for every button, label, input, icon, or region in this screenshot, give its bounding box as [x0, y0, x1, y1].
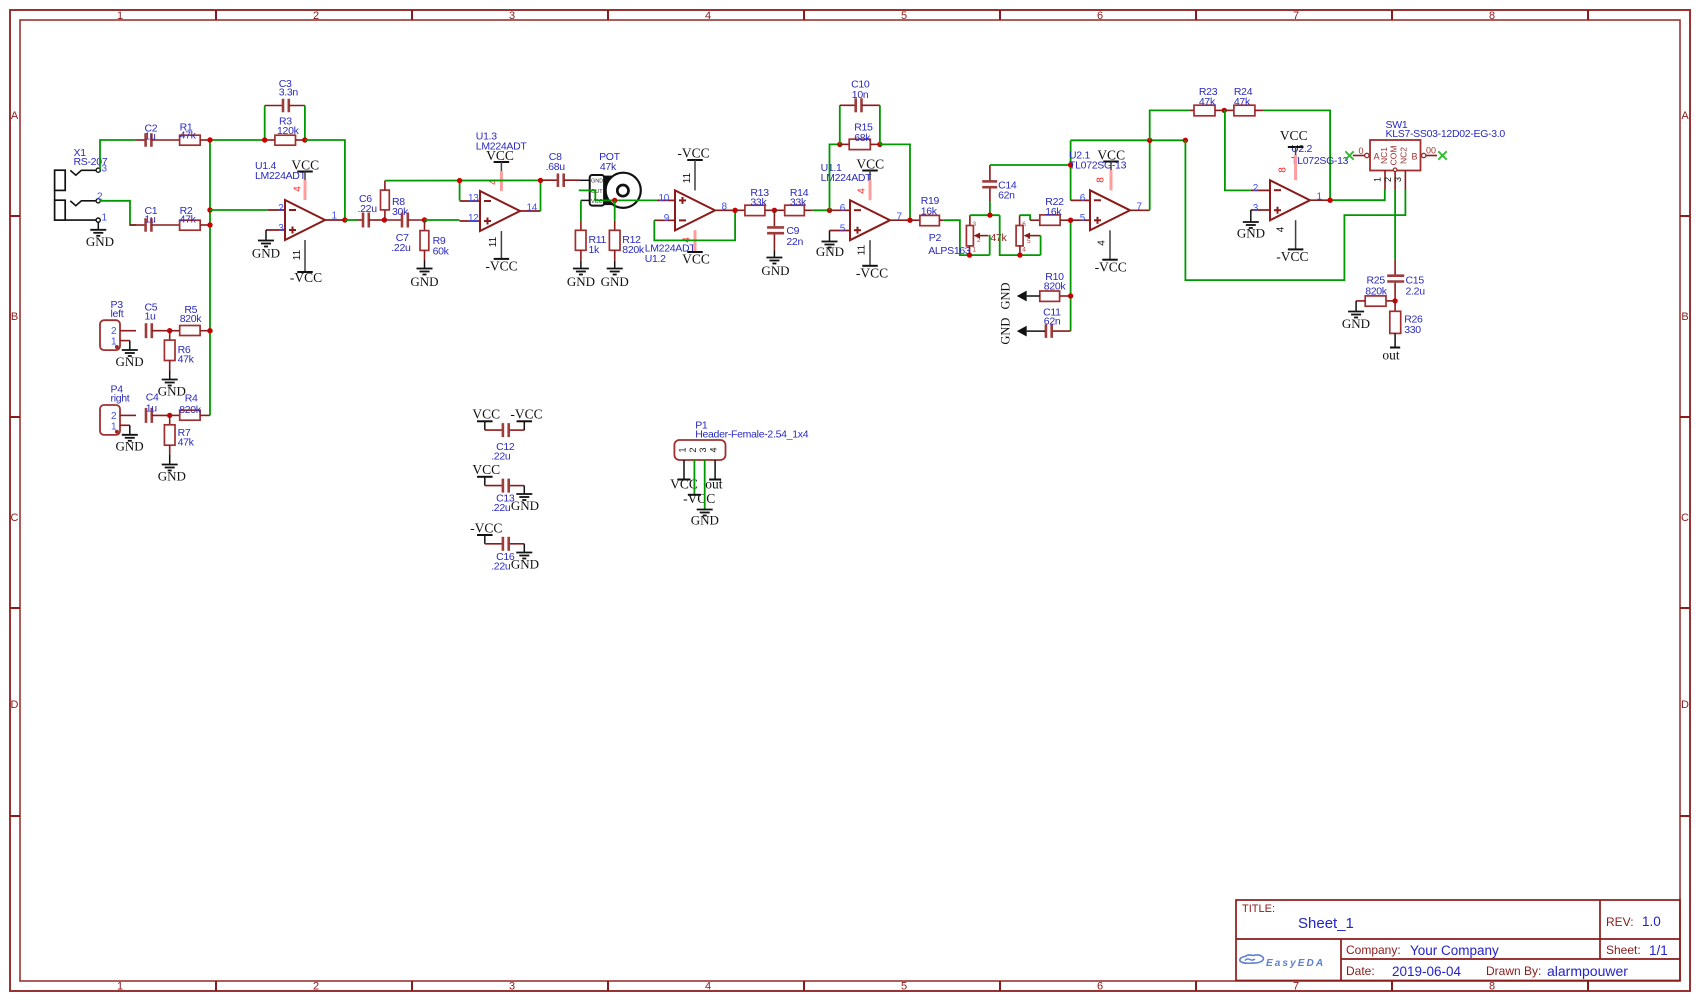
wire U2.1 output up to feedback row [1149, 140, 1151, 210]
svg-text:-VCC: -VCC [677, 146, 709, 161]
connector P1 Header-Female-2.54_1x4 [674, 420, 808, 461]
resistor R15 68k feedback [837, 122, 883, 150]
potentiometer P2 ALPS163 gang 1 [928, 215, 1007, 258]
svg-text:U1.2: U1.2 [645, 253, 666, 265]
wire X1 pin3 to C2 [100, 140, 136, 170]
svg-text:4: 4 [1022, 246, 1026, 253]
svg-text:47k: 47k [180, 213, 197, 225]
svg-text:C: C [1681, 512, 1689, 524]
svg-text:1: 1 [973, 246, 977, 253]
svg-text:1.0: 1.0 [1642, 914, 1661, 929]
svg-text:D: D [11, 699, 19, 711]
op-amp U1.2 LM224ADT [645, 190, 735, 265]
svg-text:11: 11 [857, 244, 868, 255]
no-connect X left of SW1 [1345, 151, 1353, 159]
svg-text:-VCC: -VCC [290, 270, 322, 285]
connector X1 RS-207 jack [55, 147, 108, 224]
svg-text:U2.2: U2.2 [1291, 143, 1312, 155]
resistor R1 47k [180, 122, 210, 146]
svg-text:1: 1 [332, 210, 338, 221]
svg-text:B: B [1681, 311, 1688, 323]
svg-text:1k: 1k [589, 244, 601, 256]
svg-text:0: 0 [1358, 146, 1363, 156]
op-amp U1.1 LM224ADT [821, 162, 910, 240]
svg-text:7: 7 [897, 211, 903, 222]
svg-text:Company:: Company: [1346, 943, 1401, 957]
svg-text:2: 2 [278, 203, 284, 214]
svg-text:Header-Female-2.54_1x4: Header-Female-2.54_1x4 [695, 428, 809, 440]
potentiometer POT 47k [580, 151, 641, 208]
svg-text:62n: 62n [998, 190, 1015, 202]
ruler column labels [117, 10, 1495, 992]
svg-text:A: A [11, 110, 19, 122]
wire R23/R24 junction to U2.2 pin2 [1225, 110, 1251, 190]
potentiometer P2 ALPS163 gang 2 [1016, 215, 1041, 258]
svg-text:GND: GND [252, 246, 280, 261]
capacitor C15 2.2u [1387, 259, 1425, 301]
svg-text:ALPS163: ALPS163 [928, 245, 971, 257]
svg-text:GND: GND [999, 318, 1013, 345]
wire P2 gang2 top to R22 [1020, 215, 1031, 220]
wire POT vcc pin to R11 [581, 200, 590, 220]
capacitor C11 62n [999, 307, 1071, 345]
svg-text:Date:: Date: [1346, 964, 1375, 978]
VCC flag U2.2 pin 8 [1278, 128, 1308, 180]
-VCC flag U2.1 pin 4 [1095, 230, 1127, 274]
capacitor C8 .68u [541, 151, 581, 187]
-VCC flag U1.4 pin 11 [290, 240, 322, 285]
ground below R9 [410, 261, 438, 290]
wire big loop pin6row to SW1 pin3 [1185, 140, 1405, 280]
node junction dots input bus [207, 137, 212, 333]
svg-text:5: 5 [1027, 238, 1031, 245]
svg-text:5: 5 [901, 10, 907, 22]
svg-text:1u: 1u [145, 213, 157, 225]
svg-text:GND: GND [999, 282, 1013, 309]
resistor R13 33k [735, 187, 774, 215]
-VCC flag U2.2 pin 4 [1276, 220, 1309, 264]
wire R14 to U1.1 pin 6 [813, 209, 830, 211]
svg-text:3: 3 [102, 163, 108, 174]
svg-text:7: 7 [1293, 980, 1299, 992]
svg-text:.22u: .22u [391, 242, 411, 254]
svg-text:-VCC: -VCC [683, 491, 715, 506]
svg-text:VCC: VCC [486, 148, 514, 163]
svg-text:COM: COM [1389, 146, 1399, 166]
svg-text:GND: GND [511, 498, 539, 513]
svg-text:B: B [11, 311, 18, 323]
svg-text:47k: 47k [178, 437, 195, 449]
capacitor C12 .22u decoupling [472, 407, 542, 463]
svg-text:3: 3 [278, 223, 284, 234]
svg-text:10: 10 [658, 193, 669, 204]
wire C14 top to U2.1 pin6 bus [990, 164, 1071, 166]
ground at U1.4 pin 3 [252, 230, 280, 261]
svg-text:2: 2 [313, 980, 319, 992]
wire to U1.4 pin2 [210, 209, 268, 211]
svg-text:VCC: VCC [856, 157, 884, 172]
svg-text:1: 1 [1317, 191, 1323, 202]
svg-text:6: 6 [1022, 221, 1026, 228]
svg-text:47k: 47k [1199, 96, 1216, 108]
svg-text:alarmpouwer: alarmpouwer [1547, 963, 1628, 979]
svg-text:.22u: .22u [491, 451, 511, 463]
wire output row to SW1 pin1 [1330, 190, 1385, 201]
wire R1 junction to R3 [210, 139, 265, 141]
svg-text:4: 4 [705, 980, 711, 992]
svg-text:REV:: REV: [1606, 915, 1634, 929]
out flag at P1 pin4 [705, 460, 723, 492]
svg-text:33k: 33k [750, 197, 767, 209]
svg-text:7: 7 [1137, 202, 1143, 213]
svg-text:1u: 1u [145, 311, 157, 323]
svg-text:-VCC: -VCC [1095, 260, 1127, 275]
svg-text:3: 3 [973, 221, 977, 228]
wire POT out [579, 190, 657, 200]
svg-text:4: 4 [857, 188, 868, 194]
wire R24 to U2.2 output drop [1263, 110, 1330, 200]
capacitor C14 62n [982, 165, 1017, 218]
ground at P4 pin1 [116, 425, 144, 453]
svg-text:NC2: NC2 [1398, 147, 1408, 164]
svg-text:2: 2 [111, 411, 117, 422]
svg-text:8: 8 [722, 202, 728, 213]
wire X1 pin2 to C1 [100, 201, 136, 225]
svg-text:.68u: .68u [546, 161, 566, 173]
wire P2 gang1 wiper to bottom [988, 236, 991, 256]
svg-text:14: 14 [527, 202, 538, 213]
svg-text:Sheet_1: Sheet_1 [1298, 915, 1354, 932]
ground below R6 [158, 371, 186, 399]
svg-text:4: 4 [293, 186, 304, 192]
svg-text:VCC: VCC [291, 158, 319, 173]
resistor R22 16k [1030, 196, 1071, 225]
svg-text:KLS7-SS03-12D02-EG-3.0: KLS7-SS03-12D02-EG-3.0 [1386, 128, 1506, 140]
svg-text:60k: 60k [433, 246, 450, 258]
svg-text:VCC: VCC [472, 407, 500, 422]
svg-text:GND: GND [816, 244, 844, 259]
svg-text:out: out [705, 477, 723, 492]
svg-text:out: out [1382, 348, 1400, 363]
svg-text:1u: 1u [146, 402, 158, 414]
svg-text:Sheet:: Sheet: [1606, 943, 1641, 957]
svg-text:5: 5 [1080, 213, 1086, 224]
svg-text:VCC: VCC [472, 462, 500, 477]
resistor R25 820k [1356, 275, 1398, 307]
svg-text:1: 1 [117, 10, 123, 22]
svg-text:7: 7 [1293, 10, 1299, 22]
svg-text:3: 3 [1253, 203, 1259, 214]
capacitor C9 22n [767, 210, 803, 250]
wire P2 gang1 top to gang2 bottom [1000, 215, 1041, 255]
svg-text:P2: P2 [929, 232, 942, 244]
resistor R12 820k [609, 221, 645, 261]
svg-text:Drawn By:: Drawn By: [1486, 964, 1541, 978]
svg-text:GND: GND [511, 557, 539, 572]
capacitor C5 1u [145, 302, 170, 339]
svg-text:VCC: VCC [682, 252, 710, 267]
wire drop to U1.3 pin 13 [459, 181, 461, 201]
capacitor C1 1u [130, 205, 180, 232]
svg-text:VCC: VCC [1097, 148, 1125, 163]
svg-text:3.3n: 3.3n [279, 86, 299, 98]
capacitor C6 .22u [345, 193, 385, 228]
svg-text:4: 4 [708, 447, 718, 452]
svg-text:11: 11 [682, 172, 693, 183]
svg-text:8: 8 [1489, 10, 1495, 22]
VCC flag U1.2 pin 4 (bottom) [682, 230, 710, 266]
svg-text:12: 12 [468, 213, 479, 224]
connector P3 left [100, 299, 136, 350]
svg-text:GND: GND [410, 274, 438, 289]
svg-text:1: 1 [678, 447, 688, 452]
wire U1.2 feedback pin9 [654, 210, 735, 240]
svg-text:TL072SG-13: TL072SG-13 [1291, 155, 1349, 167]
svg-text:00: 00 [1426, 146, 1436, 156]
svg-text:right: right [111, 393, 130, 405]
svg-text:6: 6 [1080, 193, 1086, 204]
svg-text:A: A [1681, 110, 1689, 122]
wire U1.1 feedback left [830, 144, 840, 210]
svg-text:R4: R4 [185, 392, 198, 404]
svg-text:8: 8 [1096, 177, 1107, 183]
svg-text:6: 6 [1097, 980, 1103, 992]
svg-text:2: 2 [111, 326, 117, 337]
svg-text:8: 8 [1489, 980, 1495, 992]
svg-text:820k: 820k [180, 313, 203, 325]
EasyEDA logo [1240, 955, 1325, 969]
wire U1.1 feedback right to output [880, 144, 910, 220]
svg-text:EasyEDA: EasyEDA [1266, 958, 1325, 969]
svg-text:GND: GND [1342, 316, 1370, 331]
svg-text:1/1: 1/1 [1649, 943, 1668, 958]
svg-text:3: 3 [698, 447, 708, 452]
svg-text:120k: 120k [277, 125, 300, 137]
svg-text:GND: GND [1237, 226, 1265, 241]
svg-text:GND: GND [761, 263, 789, 278]
svg-text:GND: GND [591, 179, 603, 185]
svg-text:6: 6 [1097, 10, 1103, 22]
wire up to R23 row [1150, 110, 1190, 140]
wire main input bus vertical [209, 140, 211, 415]
ground below C9 [761, 250, 789, 278]
-VCC flag U1.3 pin 11 [485, 231, 517, 274]
svg-text:820k: 820k [622, 244, 645, 256]
svg-text:5: 5 [840, 223, 846, 234]
svg-text:8: 8 [1278, 167, 1289, 173]
svg-text:-VCC: -VCC [856, 266, 888, 281]
svg-text:GND: GND [158, 469, 186, 484]
svg-text:1u: 1u [145, 131, 157, 143]
svg-text:2: 2 [1253, 183, 1259, 194]
svg-text:GND: GND [601, 274, 629, 289]
svg-text:820k: 820k [179, 404, 202, 416]
svg-text:-VCC: -VCC [1276, 249, 1308, 264]
svg-text:9: 9 [664, 213, 670, 224]
wire U2.1 pin6 vertical [1070, 140, 1072, 200]
resistor R9 60k [420, 217, 450, 260]
resistor R14 33k [772, 187, 813, 215]
svg-text:LM224ADT: LM224ADT [821, 172, 873, 184]
svg-text:2019-06-04: 2019-06-04 [1392, 964, 1462, 979]
VCC flag at P1 pin1 [670, 460, 698, 492]
-VCC flag U1.1 pin 11 [856, 240, 888, 280]
svg-text:.22u: .22u [358, 203, 378, 215]
svg-text:16k: 16k [1045, 206, 1062, 218]
svg-text:47k: 47k [180, 130, 197, 142]
svg-text:4: 4 [705, 10, 711, 22]
op-amp U1.3 LM224ADT [460, 131, 541, 232]
resistor R6 47k [164, 331, 194, 371]
resistor R24 47k [1222, 86, 1263, 116]
wire SW1 COM down to C15 [1394, 190, 1396, 260]
svg-text:2: 2 [313, 10, 319, 22]
svg-text:GND: GND [567, 274, 595, 289]
VCC flag U2.1 pin 8 [1096, 148, 1126, 191]
capacitor C2 1u [136, 123, 180, 147]
svg-text:GND: GND [86, 234, 114, 249]
capacitor C13 .22u decoupling [472, 462, 539, 514]
svg-text:Your Company: Your Company [1410, 943, 1499, 958]
out net flag [1382, 333, 1400, 362]
svg-text:2: 2 [688, 447, 698, 452]
ground at U1.1 pin 5 [816, 231, 844, 260]
svg-text:GND: GND [116, 354, 144, 369]
-VCC flag U1.2 pin 11 (top) [677, 146, 709, 191]
svg-text:6: 6 [840, 203, 846, 214]
ground below R11 [567, 261, 595, 289]
svg-text:2.2u: 2.2u [1406, 286, 1426, 298]
svg-text:-VCC: -VCC [485, 259, 517, 274]
svg-text:1: 1 [117, 980, 123, 992]
resistor R23 47k [1190, 86, 1224, 116]
ground at P1 pin3 [691, 460, 719, 528]
wire U1.3 out to top bus [540, 180, 542, 211]
resistor R2 47k [180, 205, 210, 230]
svg-text:13: 13 [468, 193, 479, 204]
wire U2.1 pin5 bias vertical [1070, 220, 1072, 331]
wire U1.4 output feedback [305, 140, 345, 220]
svg-text:.22u: .22u [491, 561, 511, 573]
svg-text:2: 2 [1383, 177, 1393, 182]
resistor R4 820k [167, 392, 210, 420]
capacitor C10 10n feedback [840, 79, 880, 145]
svg-text:3: 3 [1393, 177, 1403, 182]
capacitor C4 1u [146, 392, 170, 423]
svg-text:1: 1 [102, 213, 108, 224]
svg-text:TITLE:: TITLE: [1242, 903, 1275, 915]
svg-text:820k: 820k [1044, 281, 1067, 293]
ground at P3 pin1 [116, 341, 144, 369]
svg-text:-VCC: -VCC [510, 407, 542, 422]
resistor R7 47k [164, 415, 194, 455]
svg-text:47k: 47k [1234, 96, 1251, 108]
resistor R26 330 [1390, 301, 1423, 336]
no-connect X right of SW1 [1438, 151, 1446, 159]
ruler row labels [11, 110, 1690, 711]
svg-text:16k: 16k [921, 206, 938, 218]
wire feedback row to pin6 bus [1071, 139, 1186, 141]
capacitor C3 3.3n feedback [265, 78, 305, 140]
VCC flag U1.3 pin 4 [486, 148, 514, 191]
ground below R7 [158, 455, 186, 484]
resistor R3 120k feedback [262, 116, 308, 146]
VCC flag U1.4 pin 4 [291, 158, 319, 201]
resistor R5 820k [167, 304, 210, 336]
svg-text:11: 11 [292, 249, 303, 260]
svg-text:10n: 10n [852, 89, 869, 101]
wire R19 to P2 [943, 220, 990, 255]
svg-text:1: 1 [1373, 177, 1383, 182]
ground left of R25 [1342, 301, 1370, 331]
svg-text:47k: 47k [178, 354, 195, 366]
svg-text:5: 5 [901, 980, 907, 992]
svg-text:820k: 820k [1365, 286, 1388, 298]
svg-text:GND: GND [691, 513, 719, 528]
svg-text:.22u: .22u [491, 502, 511, 514]
op-amp U2.1 TL072SG-13 [1069, 150, 1150, 231]
svg-text:C: C [11, 512, 19, 524]
resistor R8 30k [381, 181, 410, 223]
svg-text:330: 330 [1404, 324, 1421, 336]
ground at X1 pin 1 [86, 222, 114, 249]
svg-text:47k: 47k [600, 161, 617, 173]
svg-text:VCC: VCC [1280, 128, 1308, 143]
svg-text:22n: 22n [786, 236, 803, 248]
svg-text:NC1: NC1 [1379, 147, 1389, 164]
ground below R12 [601, 261, 629, 289]
-VCC flag at P1 pin2 [683, 460, 715, 506]
svg-text:left: left [111, 308, 124, 320]
svg-text:D: D [1681, 699, 1689, 711]
resistor R19 16k [910, 195, 943, 226]
svg-text:GND: GND [116, 439, 144, 454]
svg-text:-VCC: -VCC [470, 521, 502, 536]
resistor R10 820k [999, 271, 1071, 310]
VCC flag U1.1 pin 4 [856, 157, 884, 201]
wire P2 gang1 top [970, 214, 1000, 216]
connector P4 right [100, 384, 136, 435]
svg-text:4: 4 [1276, 226, 1287, 232]
svg-text:68k: 68k [854, 132, 871, 144]
resistor R11 1k [575, 221, 606, 261]
wire C7 to U1.3 pin 12 [425, 219, 460, 221]
capacitor C16 .22u decoupling [470, 521, 539, 573]
svg-text:3: 3 [509, 980, 515, 992]
svg-text:4: 4 [1097, 240, 1108, 246]
svg-text:62n: 62n [1044, 316, 1061, 328]
wire P2 gang2 wiper loop [1040, 236, 1042, 256]
title block [1236, 900, 1680, 981]
capacitor C7 .22u [384, 213, 424, 255]
svg-text:33k: 33k [790, 197, 807, 209]
ground at U2.2 pin 3 [1237, 210, 1265, 241]
switch SW1 KLS7-SS03-12D02-EG-3.0 [1353, 119, 1506, 190]
op-amp U1.4 LM224ADT [255, 160, 345, 240]
wire R8 top to pin13/C8 [385, 179, 541, 181]
svg-text:GND: GND [158, 384, 186, 399]
svg-text:11: 11 [488, 236, 499, 247]
svg-text:3: 3 [509, 10, 515, 22]
wire junction to R12 [614, 201, 616, 221]
svg-text:B: B [1411, 152, 1417, 162]
op-amp U2.2 TL072SG-13 [1251, 143, 1349, 220]
